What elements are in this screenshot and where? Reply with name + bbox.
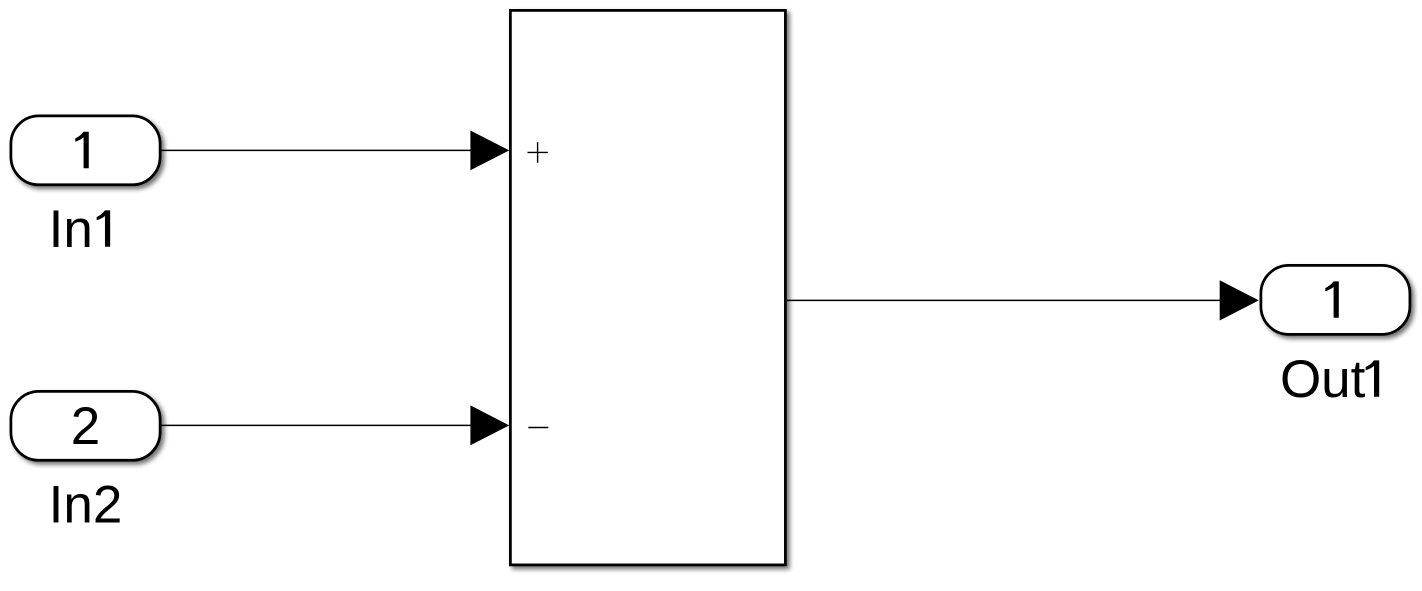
inport In1: [11, 116, 160, 185]
arrowhead at Out1 input: [1220, 280, 1259, 320]
svg-text:2: 2: [71, 397, 100, 456]
arrowhead at Sum plus input: [470, 131, 509, 171]
label Out1: [1280, 350, 1379, 409]
svg-text:Out: Out: [1280, 350, 1366, 409]
wire In2 to Sum minus input: [161, 424, 471, 426]
inport In2: [11, 391, 160, 460]
wire In1 to Sum plus input: [161, 149, 471, 151]
plus sign at first input: [528, 142, 548, 163]
outport Out1: [1261, 265, 1410, 334]
sum block U1: [510, 10, 785, 565]
label In1: [49, 200, 111, 259]
svg-text:In2: In2: [49, 475, 123, 534]
arrowhead at Sum minus input: [470, 405, 509, 445]
minus sign at second input: [528, 427, 548, 429]
wire Sum output to Out1: [787, 299, 1221, 301]
svg-text:In: In: [49, 200, 93, 259]
